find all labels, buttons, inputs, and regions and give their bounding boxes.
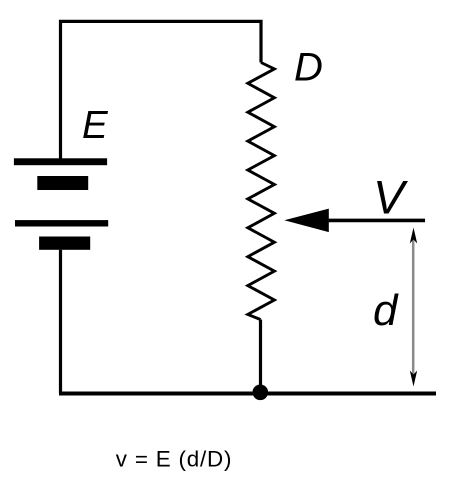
dimension arrowhead bottom (points down toward bottom rail) <box>410 371 417 387</box>
battery E: cell1 short thick plate <box>37 176 88 190</box>
wire: top left branch from battery + up and across to resistor top <box>61 21 262 158</box>
wiper arrow V: horizontal lead <box>327 219 425 223</box>
svg-text:D: D <box>294 46 323 90</box>
battery E: cell2 short thick plate <box>39 237 90 250</box>
wire: resistor bottom to bottom rail <box>259 320 262 394</box>
svg-text:V: V <box>373 170 408 223</box>
wire: battery bottom down to bottom rail <box>59 250 62 394</box>
battery E: cell2 long plate <box>15 220 108 226</box>
svg-text:v = E (d/D): v = E (d/D) <box>116 446 232 471</box>
svg-text:d: d <box>373 286 399 335</box>
junction node dot <box>252 385 268 401</box>
resistor D zigzag <box>248 63 275 320</box>
dimension line d: gray vertical line <box>412 238 415 377</box>
svg-text:E: E <box>82 104 109 147</box>
wiper arrow V: solid arrowhead pointing left at resistor <box>284 209 329 233</box>
bottom rail wire <box>59 392 436 396</box>
dimension arrowhead top (points up toward wiper line) <box>410 228 417 244</box>
battery E: cell1 long plate <box>14 158 107 165</box>
